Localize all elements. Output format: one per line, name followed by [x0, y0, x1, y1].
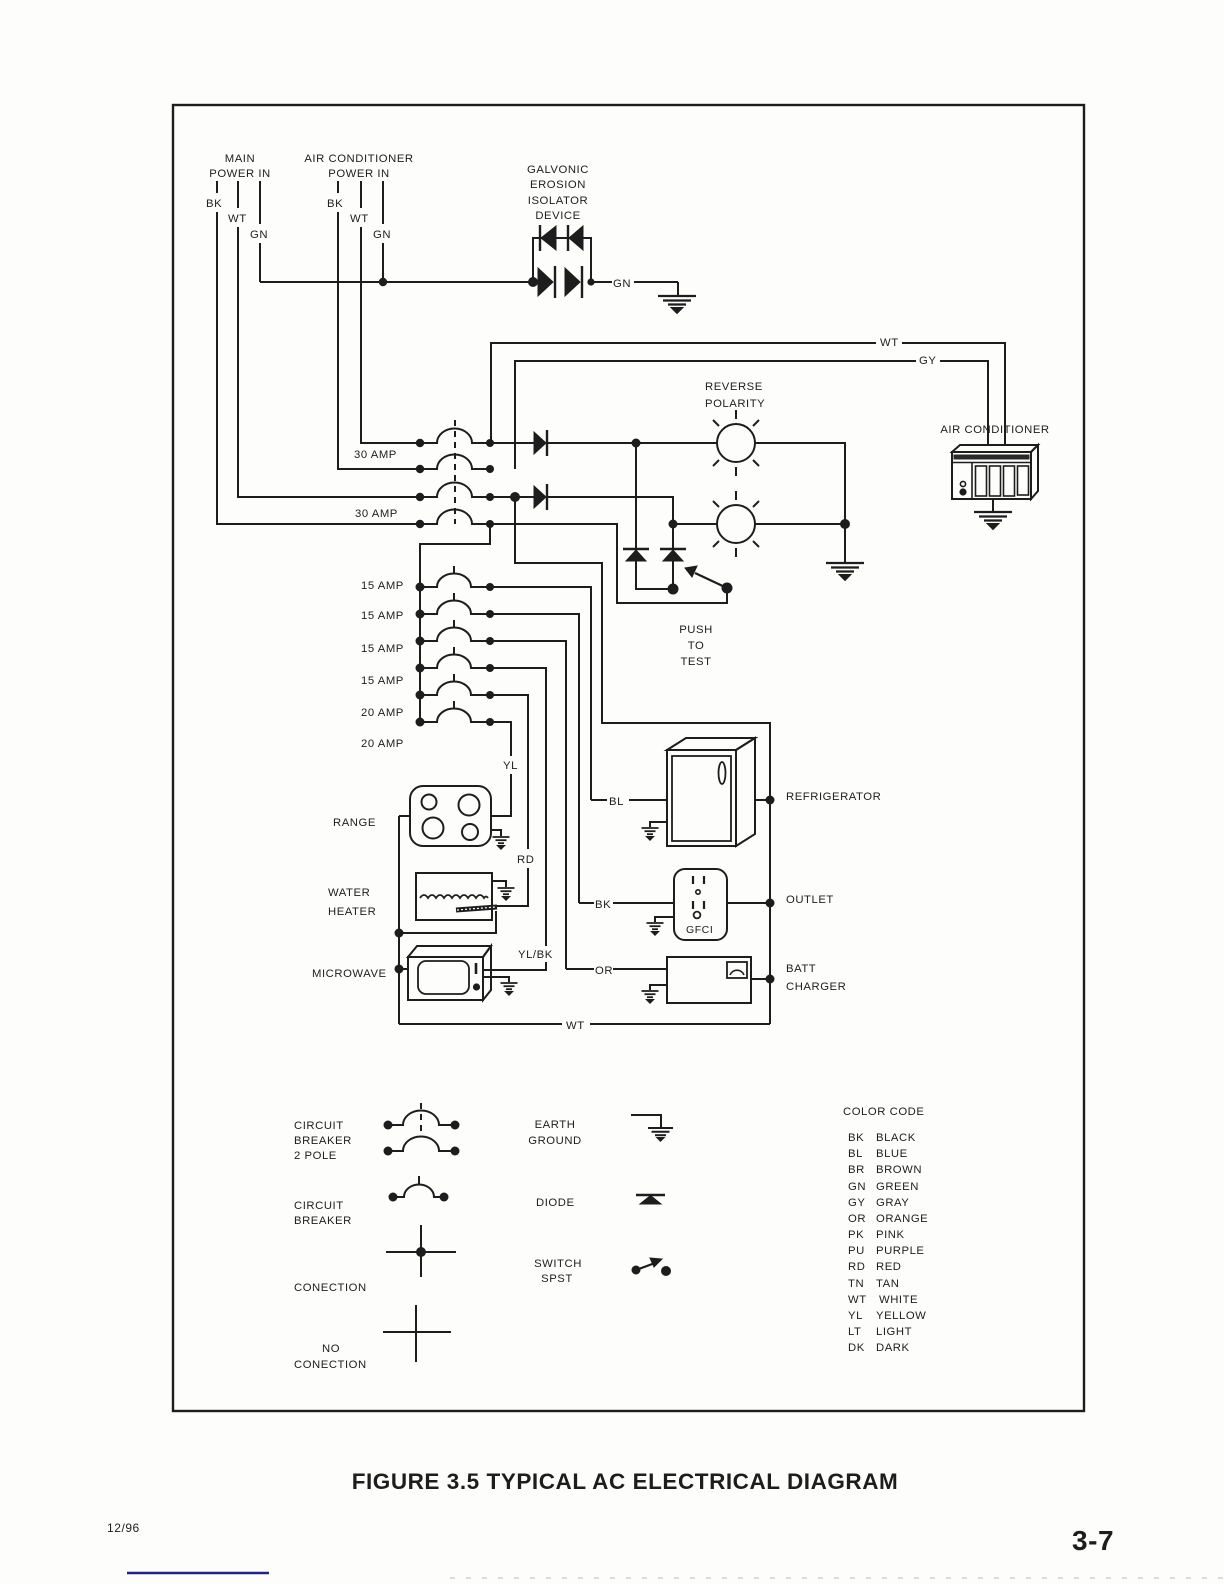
ground GN rail [658, 296, 696, 314]
svg-text:3-7: 3-7 [1072, 1525, 1114, 1556]
svg-text:WT: WT [880, 337, 899, 349]
svg-text:POWER IN: POWER IN [328, 168, 390, 180]
wire breaker row3 output (OR circuit) [490, 641, 566, 969]
diode D2 [534, 484, 547, 510]
lamp L1 [713, 410, 759, 476]
wire water heater ground lead [492, 881, 506, 887]
wire microwave left [399, 968, 408, 970]
svg-text:15 AMP: 15 AMP [361, 610, 404, 622]
svg-text:BLACK: BLACK [876, 1132, 916, 1144]
breaker CB2 pole2 [420, 510, 490, 525]
svg-text:EARTH: EARTH [535, 1119, 576, 1131]
battery charger [667, 957, 751, 1003]
ground lamp bus [826, 563, 864, 581]
svg-text:BROWN: BROWN [876, 1164, 922, 1176]
ground air conditioner [974, 512, 1012, 530]
legend diode symbol [636, 1195, 665, 1204]
svg-text:SPST: SPST [541, 1273, 573, 1285]
diode isolator top-left (points left) [540, 225, 556, 251]
svg-text:GY: GY [919, 355, 936, 367]
svg-text:YELLOW: YELLOW [876, 1310, 926, 1322]
svg-text:MICROWAVE: MICROWAVE [312, 968, 387, 980]
wire range ground lead [491, 830, 501, 836]
svg-text:BATT: BATT [786, 963, 816, 975]
svg-text:GY: GY [848, 1197, 865, 1209]
wire microwave ground lead [483, 977, 509, 982]
svg-text:WT: WT [566, 1020, 585, 1032]
svg-text:CONECTION: CONECTION [294, 1282, 367, 1294]
svg-text:30 AMP: 30 AMP [355, 508, 398, 520]
svg-text:HEATER: HEATER [328, 906, 376, 918]
junction L2 feed [669, 520, 678, 529]
wire BL to refrigerator [591, 799, 667, 801]
legend breaker symbol [397, 1176, 441, 1197]
svg-text:ISOLATOR: ISOLATOR [528, 195, 588, 207]
svg-text:BK: BK [327, 198, 343, 210]
svg-text:POLARITY: POLARITY [705, 398, 765, 410]
svg-text:WT: WT [848, 1294, 867, 1306]
svg-text:FIGURE 3.5 TYPICAL AC ELECTRIC: FIGURE 3.5 TYPICAL AC ELECTRICAL DIAGRAM [352, 1469, 899, 1494]
svg-text:PU: PU [848, 1245, 865, 1257]
svg-text:OR: OR [595, 965, 613, 977]
svg-text:GN: GN [250, 229, 268, 241]
ground refrigerator [642, 828, 659, 840]
wire L2 left [673, 523, 717, 525]
svg-text:CONECTION: CONECTION [294, 1359, 367, 1371]
svg-text:GRAY: GRAY [876, 1197, 909, 1209]
label NO CONECTION [294, 1343, 367, 1371]
svg-text:RD: RD [848, 1261, 865, 1273]
svg-text:OR: OR [848, 1213, 866, 1225]
wire main WT [238, 181, 420, 497]
svg-text:OUTLET: OUTLET [786, 894, 834, 906]
node isolator right [587, 278, 594, 285]
junction CB2 pole1 [510, 492, 520, 502]
svg-text:DIODE: DIODE [536, 1197, 575, 1209]
svg-text:POWER IN: POWER IN [209, 168, 271, 180]
legend connection symbol [386, 1225, 456, 1277]
legend earth ground symbol [631, 1115, 661, 1127]
wire aircond WT [361, 181, 420, 443]
ground outlet [647, 923, 664, 935]
svg-text:YL: YL [503, 760, 518, 772]
diode A (points up) [623, 549, 649, 561]
breaker 20A row6 [420, 701, 490, 722]
wire WT to air conditioner [491, 343, 1005, 446]
svg-text:20 AMP: 20 AMP [361, 738, 404, 750]
junction water heater neutral on bus [395, 929, 404, 938]
wire BK to outlet [579, 902, 674, 904]
junction aircond GN on rail [379, 278, 387, 286]
breaker 15A row3 [420, 620, 490, 641]
svg-text:RED: RED [876, 1261, 902, 1273]
svg-text:BREAKER: BREAKER [294, 1215, 352, 1227]
diode B (points up) [660, 549, 686, 561]
junction charger on bus [766, 975, 775, 984]
legend no-connection symbol [383, 1305, 451, 1362]
label PUSH TO TEST [679, 624, 713, 668]
wire GN rail [260, 282, 678, 295]
breaker 15A row4 [420, 647, 490, 668]
air conditioner unit [952, 445, 1038, 511]
wire isolator top branch [533, 238, 591, 282]
svg-text:2 POLE: 2 POLE [294, 1150, 337, 1162]
svg-text:NO: NO [322, 1343, 340, 1355]
svg-text:PK: PK [848, 1229, 864, 1241]
svg-text:TAN: TAN [876, 1278, 899, 1290]
breaker CB1 pole2 [420, 454, 490, 469]
label CIRCUIT BREAKER [294, 1200, 352, 1227]
border frame [173, 105, 1084, 1411]
breaker 15A row1 [420, 566, 490, 587]
label MAIN POWER IN [209, 153, 271, 180]
svg-text:COLOR CODE: COLOR CODE [843, 1106, 924, 1118]
svg-text:YL/BK: YL/BK [518, 949, 553, 961]
water heater tank [416, 873, 492, 920]
wire branch bus feed [420, 524, 490, 722]
wire CB2 pole1 output [490, 497, 673, 589]
svg-text:BREAKER: BREAKER [294, 1135, 352, 1147]
svg-text:BK: BK [848, 1132, 864, 1144]
left appliance bus [398, 816, 400, 1024]
svg-text:BK: BK [595, 899, 611, 911]
svg-text:AIR CONDITIONER: AIR CONDITIONER [304, 153, 413, 165]
svg-text:AIR CONDITIONER: AIR CONDITIONER [940, 424, 1049, 436]
svg-text:TN: TN [848, 1278, 864, 1290]
legend breaker 2-pole symbol [392, 1103, 451, 1151]
svg-text:PUSH: PUSH [679, 624, 713, 636]
junction refrigerator on bus [766, 796, 775, 805]
wire OR to charger [566, 968, 667, 970]
ground charger [642, 991, 659, 1003]
wire CB1 pole1 output [490, 442, 717, 444]
junction L1 feed [632, 439, 641, 448]
blue line bottom left [127, 1572, 269, 1575]
svg-text:CIRCUIT: CIRCUIT [294, 1200, 344, 1212]
svg-text:WATER: WATER [328, 887, 370, 899]
terminal dots CB2 [416, 493, 494, 528]
wire outlet right [727, 902, 770, 904]
wire main GN [259, 181, 261, 282]
svg-text:MAIN: MAIN [225, 153, 255, 165]
svg-text:GALVONIC: GALVONIC [527, 164, 589, 176]
wire diode A branch [636, 443, 673, 589]
breaker CB1 pole1 [420, 429, 490, 444]
label EARTH GROUND [528, 1119, 582, 1147]
wire WT bottom [399, 1023, 770, 1025]
svg-text:DK: DK [848, 1342, 865, 1354]
svg-text:GN: GN [373, 229, 391, 241]
svg-text:GN: GN [848, 1181, 866, 1193]
svg-text:LT: LT [848, 1326, 861, 1338]
label REVERSE POLARITY [705, 381, 765, 410]
svg-text:BL: BL [848, 1148, 863, 1160]
label WATER HEATER [328, 887, 376, 918]
svg-text:15 AMP: 15 AMP [361, 675, 404, 687]
svg-text:WHITE: WHITE [879, 1294, 918, 1306]
svg-text:BLUE: BLUE [876, 1148, 908, 1160]
breaker 20A row5 [420, 674, 490, 695]
ground microwave [501, 983, 518, 995]
color code list [848, 1132, 928, 1354]
svg-text:DEVICE: DEVICE [535, 210, 580, 222]
svg-text:WT: WT [350, 213, 369, 225]
svg-text:BK: BK [206, 198, 222, 210]
wire refrigerator ground lead [650, 822, 667, 827]
svg-text:GREEN: GREEN [876, 1181, 919, 1193]
wire aircond BK [338, 181, 420, 469]
svg-text:30 AMP: 30 AMP [354, 449, 397, 461]
wire water heater neutral [399, 911, 496, 933]
junction outlet on bus [766, 899, 775, 908]
wire main BK [217, 181, 420, 524]
lamp L2 [713, 491, 759, 557]
wire breaker row1 output (BL circuit) [490, 587, 591, 800]
wire range left [399, 815, 410, 817]
svg-text:12/96: 12/96 [107, 1521, 140, 1535]
wire breaker row2 output (BK circuit) [490, 614, 579, 903]
junction microwave on bus [395, 965, 404, 974]
svg-text:YL: YL [848, 1310, 863, 1322]
svg-text:GN: GN [613, 278, 631, 290]
breaker CB2 linkage (dashed) [454, 475, 456, 524]
ground range [493, 837, 510, 849]
breaker CB1 linkage (dashed) [454, 420, 456, 470]
legend switch symbol [632, 1258, 671, 1276]
diode isolator bottom-right (points right) [565, 266, 582, 298]
svg-text:20 AMP: 20 AMP [361, 707, 404, 719]
svg-text:RANGE: RANGE [333, 817, 376, 829]
label SWITCH SPST [534, 1258, 582, 1285]
microwave oven [408, 946, 491, 1000]
wire L2 right [755, 523, 845, 525]
svg-text:GROUND: GROUND [528, 1135, 582, 1147]
terminal dots CB1 [416, 439, 494, 473]
wire neutral bus from CB2 pole1 junction [515, 497, 770, 1024]
svg-text:SWITCH: SWITCH [534, 1258, 582, 1270]
svg-text:EROSION: EROSION [530, 179, 586, 191]
heating element [456, 907, 497, 910]
wire CB2 pole2 output to test switch [490, 524, 727, 603]
svg-text:TO: TO [688, 640, 705, 652]
label BATT CHARGER [786, 963, 846, 993]
faint bottom dashes [450, 1577, 1224, 1579]
svg-text:TEST: TEST [680, 656, 711, 668]
wire charger right [751, 978, 770, 980]
wire breaker row6 output (YL circuit) [490, 722, 511, 816]
label AIR CONDITIONER POWER IN [304, 153, 413, 180]
svg-text:CIRCUIT: CIRCUIT [294, 1120, 344, 1132]
wire breaker row5 output (RD circuit) [490, 695, 528, 906]
breaker CB2 pole1 [420, 483, 490, 497]
GFCI outlet [674, 869, 727, 940]
wire aircond GN [382, 181, 384, 282]
svg-text:RD: RD [517, 854, 534, 866]
svg-text:WT: WT [228, 213, 247, 225]
svg-text:15 AMP: 15 AMP [361, 580, 404, 592]
switch SPST push-to-test [668, 566, 732, 594]
svg-text:PINK: PINK [876, 1229, 905, 1241]
node isolator left [528, 277, 538, 287]
svg-text:GFCI: GFCI [686, 924, 713, 936]
diode D1 [534, 430, 547, 456]
svg-text:REFRIGERATOR: REFRIGERATOR [786, 791, 881, 803]
svg-text:BR: BR [848, 1164, 865, 1176]
svg-text:ORANGE: ORANGE [876, 1213, 928, 1225]
ground water heater [498, 888, 515, 900]
wire refrigerator right [755, 799, 770, 801]
label CIRCUIT BREAKER 2 POLE [294, 1120, 352, 1162]
wire L1 right to ground bus [755, 443, 845, 562]
junction lamp ground bus [840, 519, 850, 529]
wire GY to air conditioner [515, 361, 988, 469]
range cooktop [410, 786, 491, 846]
svg-text:BL: BL [609, 796, 624, 808]
svg-text:REVERSE: REVERSE [705, 381, 763, 393]
svg-text:DARK: DARK [876, 1342, 910, 1354]
diode isolator bottom-left (points right) [538, 266, 555, 298]
refrigerator [667, 738, 755, 846]
wire breaker row4 output (YL/BK circuit) [483, 668, 546, 970]
svg-text:LIGHT: LIGHT [876, 1326, 912, 1338]
diode isolator top-right (points left) [568, 225, 583, 251]
label GALVONIC EROSION ISOLATOR DEVICE [527, 164, 589, 222]
wire charger ground lead [650, 985, 667, 990]
breaker 15A row2 [420, 593, 490, 614]
svg-text:15 AMP: 15 AMP [361, 643, 404, 655]
wire outlet ground lead [655, 917, 674, 922]
svg-text:PURPLE: PURPLE [876, 1245, 925, 1257]
svg-text:CHARGER: CHARGER [786, 981, 846, 993]
